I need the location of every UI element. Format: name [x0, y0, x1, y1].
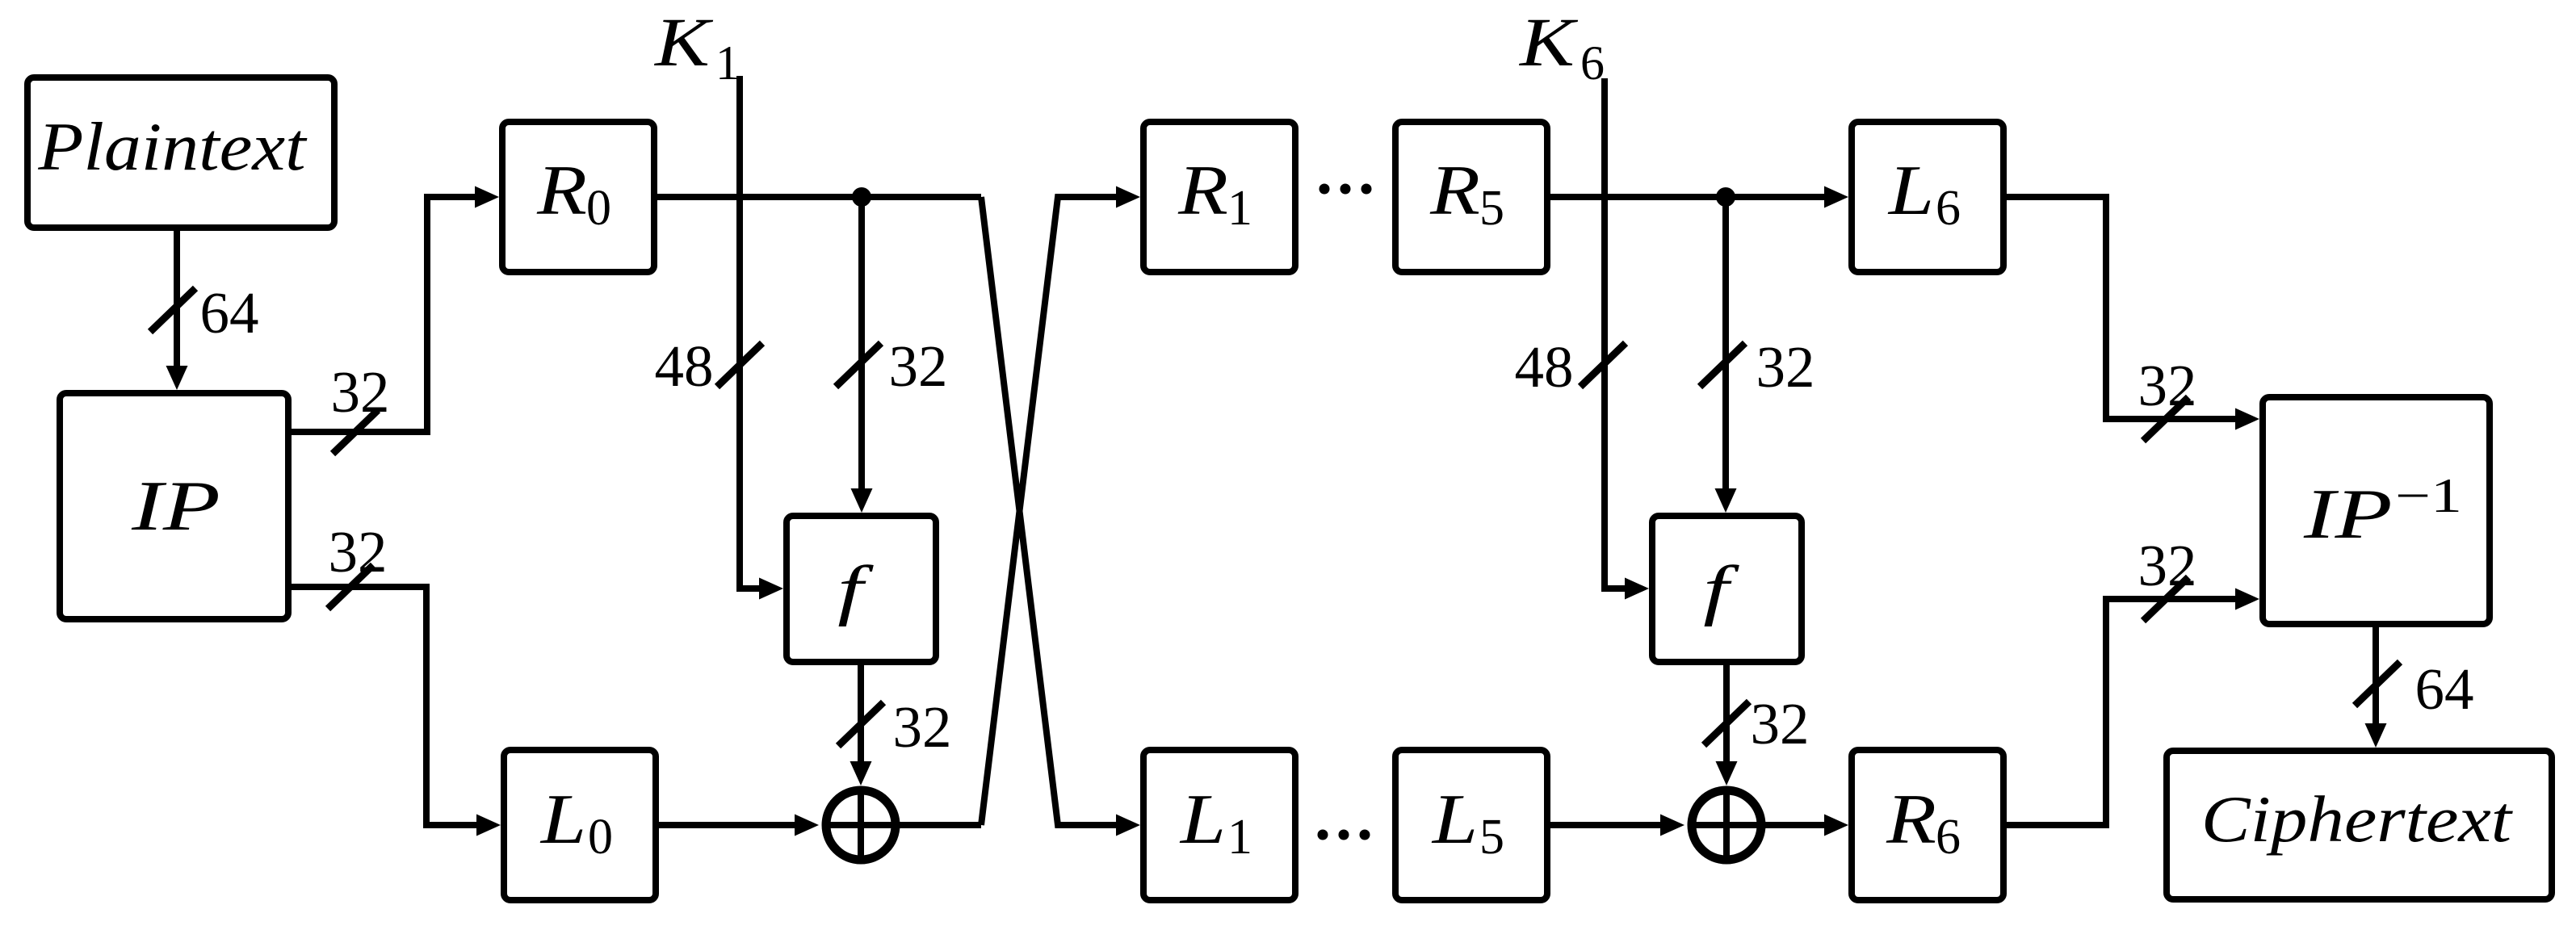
svg-text:32: 32	[329, 519, 388, 584]
wire IP lower out to L0	[288, 587, 480, 825]
svg-text:48: 48	[1515, 334, 1574, 400]
arrowhead into f round6 top	[1715, 488, 1737, 513]
wire IP-inverse to Ciphertext	[2373, 627, 2379, 727]
slash 64 output	[2355, 662, 2400, 706]
svg-text:R: R	[1886, 780, 1936, 858]
svg-text:R: R	[1429, 151, 1480, 229]
svg-text:L: L	[1431, 780, 1478, 858]
slash 32 branch round6	[1700, 343, 1745, 387]
svg-text:6: 6	[1580, 36, 1605, 90]
wire f round6 out to XOR	[1723, 665, 1730, 765]
svg-text:L: L	[1179, 780, 1226, 858]
arrowhead K6 into f	[1625, 578, 1649, 600]
wire L6 out to IP-inverse	[2007, 197, 2238, 419]
svg-text:64: 64	[200, 280, 259, 346]
box IP	[60, 393, 288, 619]
svg-text:K: K	[1518, 4, 1578, 81]
svg-text:L: L	[539, 780, 586, 858]
arrowhead K1 into f	[759, 578, 783, 600]
svg-text:32: 32	[1756, 334, 1815, 400]
wire L5 out to XOR round6	[1550, 822, 1663, 828]
box Ciphertext	[2167, 751, 2552, 899]
svg-text:32: 32	[889, 333, 948, 399]
wire Plaintext to IP	[174, 231, 180, 370]
slash 32 f round6 out	[1704, 702, 1749, 745]
slash 64 Plaintext-IP	[150, 288, 195, 332]
arrowhead into R1	[1116, 186, 1140, 208]
wire cross top-to-bottom	[981, 197, 1119, 825]
wire cross bottom-to-top	[981, 197, 1119, 825]
svg-text:1: 1	[715, 36, 740, 90]
slash 32 L6 wire	[2143, 397, 2188, 441]
wire R6 out to IP-inverse	[2007, 599, 2238, 825]
slash 32 IP lower	[328, 565, 373, 609]
function f round6	[1652, 516, 1802, 662]
slash 32 IP upper	[333, 410, 378, 454]
XOR round1 circle	[826, 790, 896, 860]
XOR round6 circle	[1692, 790, 1761, 860]
svg-text:L: L	[1887, 151, 1934, 229]
wire IP upper out to R0	[288, 197, 478, 432]
XOR round1 plus	[822, 786, 900, 864]
svg-text:IP: IP	[2303, 475, 2393, 553]
wire L0 out to XOR round1	[659, 822, 798, 828]
arrowhead into f round1 top	[851, 488, 873, 513]
arrowhead into L6	[1824, 186, 1848, 208]
arrowhead into R6	[1824, 815, 1848, 836]
svg-text:Ciphertext: Ciphertext	[2201, 782, 2513, 856]
arrowhead into IP-inverse lower	[2235, 589, 2259, 610]
arrowhead into IP top	[166, 366, 188, 390]
register R5	[1395, 122, 1547, 272]
arrowhead into XOR round1 left	[795, 815, 819, 836]
svg-text:R: R	[1177, 151, 1228, 229]
svg-text:48: 48	[655, 333, 714, 399]
wire R0 out to cross top	[657, 194, 981, 200]
svg-text:5: 5	[1479, 181, 1504, 236]
wire XOR round6 out to R6	[1761, 822, 1827, 828]
wire f round1 out to XOR	[858, 665, 864, 765]
svg-text:6: 6	[1936, 181, 1961, 236]
svg-text:0: 0	[586, 181, 611, 236]
arrowhead into Ciphertext	[2365, 723, 2387, 748]
slash 32 R6 wire	[2143, 577, 2188, 621]
wire branch down to f round6	[1722, 197, 1729, 492]
wire XOR round1 out	[896, 822, 981, 828]
wire R5 out to L6	[1550, 194, 1827, 200]
function f round1	[787, 516, 936, 662]
arrowhead into IP-inverse upper	[2235, 408, 2259, 430]
svg-text:1: 1	[1227, 810, 1252, 865]
svg-text:IP: IP	[131, 467, 220, 545]
svg-text:Plaintext: Plaintext	[37, 109, 308, 185]
arrowhead into XOR round6 left	[1660, 815, 1684, 836]
svg-text:32: 32	[331, 359, 390, 425]
box Plaintext	[27, 77, 334, 228]
register L0	[504, 750, 656, 900]
svg-text:K: K	[653, 4, 713, 81]
junction node R0 branch	[852, 187, 871, 207]
XOR round6 plus	[1688, 786, 1765, 864]
svg-text:32: 32	[1751, 691, 1810, 756]
ellipsis bottom row	[1318, 830, 1328, 840]
svg-text:1: 1	[1227, 181, 1252, 236]
arrowhead into XOR round1	[850, 761, 872, 785]
box IP-inverse	[2263, 397, 2490, 624]
svg-text:32: 32	[893, 694, 952, 760]
register L6	[1852, 122, 2003, 272]
svg-text:f: f	[1703, 551, 1739, 626]
slash 48 K6	[1580, 343, 1626, 387]
register L1	[1143, 750, 1295, 900]
svg-text:−1: −1	[2395, 469, 2462, 522]
svg-text:f: f	[837, 551, 874, 626]
register R1	[1143, 122, 1295, 272]
slash 48 K1	[717, 343, 762, 387]
arrowhead into R0	[475, 186, 499, 208]
svg-text:5: 5	[1479, 810, 1504, 865]
svg-text:6: 6	[1936, 810, 1961, 865]
arrowhead into L0	[476, 815, 501, 836]
register R6	[1852, 750, 2003, 900]
wire branch down to f round1	[858, 197, 865, 492]
svg-text:0: 0	[588, 810, 613, 865]
svg-text:32: 32	[2138, 533, 2197, 598]
slash 32 f round1 out	[838, 702, 883, 746]
svg-text:64: 64	[2415, 656, 2474, 722]
register L5	[1395, 750, 1547, 900]
arrowhead into XOR round6	[1716, 761, 1738, 785]
arrowhead into L1	[1116, 815, 1140, 836]
junction node R5 branch	[1716, 187, 1735, 207]
ellipsis top row	[1319, 184, 1330, 195]
register R0	[502, 122, 654, 272]
svg-text:R: R	[536, 151, 587, 229]
wire K6 into f round6	[1605, 78, 1628, 589]
wire K1 into f round1	[740, 76, 762, 589]
svg-text:32: 32	[2138, 353, 2197, 418]
slash 32 branch round1	[836, 343, 881, 387]
